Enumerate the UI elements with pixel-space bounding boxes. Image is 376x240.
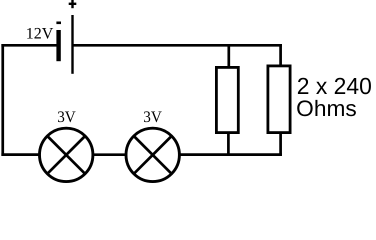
svg-text:3V: 3V	[143, 109, 162, 126]
wire: lamp L2 to resistor branch (bottom wire right segment)	[179, 153, 282, 156]
value label 3V for lamp L1	[57, 109, 76, 126]
wire: stem from resistor R1 down to bottom wire (junction)	[227, 133, 230, 156]
svg-text:12V: 12V	[26, 25, 54, 42]
battery B1 negative terminal (short thick plate)	[56, 30, 60, 61]
svg-text:Ohms: Ohms	[296, 96, 357, 121]
wire: stem from resistor R2 down to bottom right corner	[279, 133, 282, 156]
wire: battery negative to left corner (top wire left segment)	[1, 44, 58, 47]
battery B1 positive terminal (long thin plate)	[71, 15, 73, 74]
wire: bottom left to lamp L1	[1, 153, 39, 156]
svg-text:3V: 3V	[57, 109, 76, 126]
lamp L1 (3V) circle with cross	[39, 128, 92, 181]
wire: left vertical side	[1, 44, 4, 156]
value label 3V for lamp L2	[143, 109, 162, 126]
lamp L2 (3V) circle with cross	[126, 128, 179, 181]
wire: between lamp L1 and lamp L2	[93, 153, 126, 156]
resistor R1 (240 Ohm) body	[216, 67, 238, 132]
value label 2 x 240 Ohms for resistors	[296, 73, 372, 121]
wire: stem from top right corner down to resistor R2	[279, 44, 282, 67]
wire: stem from top wire down to resistor R1 (junction at top wire)	[227, 44, 230, 69]
polarity mark minus	[56, 22, 61, 25]
wire: top wire from battery positive to right corner	[72, 44, 282, 47]
polarity mark plus	[69, 0, 77, 8]
resistor R2 (240 Ohm) body	[268, 66, 290, 133]
value label 12V for battery	[26, 25, 54, 42]
